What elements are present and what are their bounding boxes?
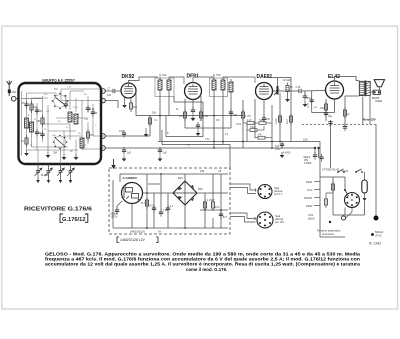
switch contact pair A [337,169,345,173]
svg-text:N. 2141: N. 2141 [369,242,381,246]
capacitor 1u with ground mid [158,147,168,162]
AVC resistor 4.47 horizontal [243,119,254,125]
svg-text:DF91: DF91 [306,180,313,184]
15A label on rail [303,138,308,142]
terminal 4 [101,146,106,151]
svg-text:100: 100 [119,129,124,133]
svg-text:100: 100 [107,94,112,97]
svg-text:100k: 100k [236,124,242,126]
tuner capacitor C1 [22,101,29,109]
svg-text:DK92: DK92 [306,204,313,208]
svg-text:2.2M: 2.2M [275,119,278,124]
IF transformer 2 [210,73,228,97]
svg-text:25µ: 25µ [328,115,333,118]
G.176/12 boxed label [60,214,88,223]
ground stub x146 [144,128,149,137]
wires to pilot lamps [230,184,256,222]
resistor 2.2M [199,109,208,121]
terminal 3 [101,134,106,139]
tuner capacitor C4 [86,105,95,113]
capacitor under IF2 with ground [196,122,201,136]
svg-text:0.08: 0.08 [296,86,301,89]
wire transformer bottom left [345,95,359,97]
1463/10126 boxed label [117,237,158,243]
tube DF91 [185,74,202,100]
main rail wires [105,78,370,171]
DAF91 plate wire and load [264,78,326,92]
DK92 cathode ground [122,97,127,108]
svg-text:B.7A: B.7A [141,202,147,205]
capacitor C.47 [307,97,318,109]
tuner ground 2 [46,152,51,158]
svg-text:4.5964: 4.5964 [304,162,312,165]
resistor 15k mid [148,111,156,128]
svg-text:C.47: C.47 [307,102,310,108]
wire IF2 to DAF91 [223,77,255,83]
volume potentiometer R.123 [274,78,291,95]
resistor right of EL42 [343,107,351,131]
midband value labels [154,109,242,147]
svg-text:6V: 6V [158,230,161,234]
svg-text:RICEVITORE G.176/6: RICEVITORE G.176/6 [24,207,92,213]
svg-text:1µF: 1µF [127,151,132,155]
electrolytic cap 500uF 15CV [111,207,120,219]
resistor 0.47 under EL42 [320,101,328,113]
input resistor B.7A [141,197,149,209]
svg-text:1711: 1711 [149,205,155,208]
svg-text:100: 100 [233,113,238,117]
svg-text:0.1: 0.1 [170,205,174,208]
svg-text:B30: B30 [198,187,203,191]
bottom caption paragraph [45,252,361,272]
svg-text:Rete 12V: Rete 12V [363,118,376,122]
svg-text:4.4050: 4.4050 [283,152,291,155]
svg-text:1µF: 1µF [163,151,168,155]
power junction dots [146,173,222,229]
capacitor 50u to ground [303,91,312,107]
wire DK92 plate to IF1 [129,77,159,83]
cap right power [211,199,220,211]
decoupling cap 4uF 150V [275,141,291,158]
choke resistor [203,199,215,211]
heater resistor 2 [308,193,333,221]
svg-text:G.176/12: G.176/12 [62,217,86,223]
svg-text:per 12V: per 12V [275,220,284,224]
tuner coil L4 [74,114,78,124]
svg-text:1461/10126: 1461/10126 [130,230,145,234]
svg-text:come il mod. G.176.: come il mod. G.176. [186,267,227,272]
tuner coil L2 [30,122,34,132]
svg-text:15k: 15k [152,111,157,115]
capacitor 500uF 25V label [303,156,312,165]
power box wiring [113,174,228,228]
coupling capacitor 0.08 [296,86,302,93]
tuner capacitor C5 [64,101,68,109]
terminal dot right [374,216,379,221]
switch contact [329,189,349,223]
svg-text:1463/10126 12V: 1463/10126 12V [120,238,146,242]
tube EL42 [326,74,344,99]
svg-text:150V: 150V [275,148,281,151]
svg-text:3-30: 3-30 [90,108,95,111]
svg-text:DAF91: DAF91 [257,74,273,80]
svg-text:di sintonia: di sintonia [322,232,334,236]
IF transformer 1 [155,73,174,97]
tuner ground 4 [74,154,79,160]
resistor 2.2M vertical right [275,113,282,125]
pilot lamp socket 6V [258,185,283,199]
tube heater labels [304,180,313,208]
resistor under DF91 [179,109,187,121]
capacitor 100 under terminal3 [119,129,126,138]
filter cap 1711 [149,205,157,213]
junction dots [159,115,320,150]
cap right power 2 [219,211,228,219]
svg-text:A.C: A.C [44,93,48,96]
antenna terminal [11,96,19,101]
svg-text:15A: 15A [303,138,308,142]
svg-text:R×2: R×2 [215,206,220,209]
tuner ground 3 [62,154,67,160]
rectifier socket [342,169,360,208]
tuning gang capacitor 3 [57,164,65,183]
svg-text:(7V) 6: (7V) 6 [375,235,382,238]
tuner resistor R3 [86,129,94,141]
svg-text:50k: 50k [133,105,138,109]
DK92 grid resistor 50k [129,98,137,113]
svg-text:OC: OC [54,88,58,91]
rotary switch S2 [53,135,68,155]
svg-text:0.1A: 0.1A [307,188,313,192]
svg-text:B×7: B×7 [223,216,228,219]
tuner resistor R2 [37,115,45,127]
tuner capacitor C6 [91,109,98,117]
filament supply bus [320,170,365,237]
Rete 12V label [363,118,376,122]
RICEVITORE label [24,207,92,213]
switch contact pair B [355,169,363,173]
tuner capacitor C9 [40,131,44,139]
loudspeaker [372,80,385,103]
tuner coil L3 [68,112,72,122]
Pulsante label [317,229,341,237]
VETRATO EL42 label [322,168,340,172]
svg-text:DAF91: DAF91 [304,196,313,200]
vibrator transformer A.1463/SV [122,176,143,204]
filter cap 7.5A [159,209,168,217]
battery input arrow [111,159,115,169]
terminal 1 [101,89,106,94]
capacitor mid3 [229,109,238,117]
grid capacitor C7 [105,88,121,98]
dashed separator lines power section [302,125,378,128]
svg-text:50µ: 50µ [307,97,312,100]
resistor 4.7M vertical [241,109,250,121]
output transformer [359,80,370,97]
tuner ground [24,150,29,156]
svg-text:76166: 76166 [375,100,383,103]
wire IF1 to DF91 [169,77,184,84]
cap under junction 315 [313,152,324,162]
svg-text:Pulsante automatico: Pulsante automatico [317,229,341,233]
svg-text:10M: 10M [250,126,255,129]
svg-text:1.5k: 1.5k [203,114,209,118]
terminal 2 [101,98,106,103]
socket output terminal [341,208,352,221]
bridge rectifier [173,176,203,205]
RF tuner box GRUPPO A.F. [19,79,102,165]
antenna [7,81,17,97]
heater resistor 1 [331,181,334,193]
tuning gang capacitor 2 [41,164,53,183]
svg-text:B30: B30 [178,176,183,180]
svg-text:OM: OM [53,152,57,155]
wire gang cap connector 1 [37,150,39,164]
svg-text:3-30: 3-30 [73,107,78,109]
svg-text:15C/V: 15C/V [111,216,118,219]
svg-text:VT7050 EL42: VT7050 EL42 [322,168,340,172]
buffer cap mid [166,205,174,213]
svg-text:1M: 1M [179,114,183,118]
AVC resistor 5.4M horizontal [254,119,272,125]
svg-text:100: 100 [266,118,271,121]
svg-text:8.47: 8.47 [286,119,289,124]
electrolytic capacitor cylinder [362,175,367,201]
svg-text:OC: OC [46,111,50,113]
svg-text:EL42: EL42 [342,169,349,173]
tuner capacitor C2 [35,107,43,115]
pilot lamp socket 12V [257,212,284,228]
tuner internal wiring [22,89,101,156]
tube DAF91 [256,74,273,100]
tuning gang capacitor 1 [35,164,43,183]
svg-text:50mA: 50mA [308,217,315,221]
AVC resistor 10M horizontal [247,126,264,132]
power supply dashed box [109,168,230,234]
svg-text:per 6 V: per 6 V [274,192,283,196]
wire DF91 plate to IF2 [193,77,214,83]
svg-text:1M: 1M [33,106,36,109]
wire transformer to speaker coil [370,91,373,93]
svg-text:GRUPPO A.F. 2555/7: GRUPPO A.F. 2555/7 [42,79,75,83]
resistor 8.47 vertical [286,113,293,125]
svg-text:+B: +B [218,170,221,173]
AVC resistor 47k horizontal [255,133,272,139]
svg-text:A.1463/SV: A.1463/SV [123,176,138,180]
svg-text:156: 156 [200,170,205,173]
svg-text:100: 100 [39,110,44,113]
svg-text:150: 150 [320,107,325,110]
svg-text:0.25: 0.25 [308,213,314,217]
rotary switch S1 [52,88,69,109]
capacitor 1u with ground left [122,147,132,162]
svg-text:4.7M: 4.7M [245,114,251,118]
wire gang cap connector 2 [60,149,62,165]
heater stub wires [314,182,320,206]
tuner coil L5 [80,138,84,148]
wire right vertical to power [375,125,377,219]
grid resistor vertical [285,83,293,103]
tuner resistor R8 [21,135,28,147]
svg-text:G.751: G.751 [213,73,221,77]
svg-text:DK92: DK92 [122,74,135,80]
5000uF label [371,231,384,238]
capacitor under DF91 [191,107,196,121]
tuning gang capacitor 4 [67,164,75,183]
svg-text:4.47: 4.47 [247,119,252,122]
cathode capacitor EL42 [324,110,333,118]
power labels bottom [130,230,161,234]
coupling cap at Rete crossing [328,122,332,124]
svg-text:EL42: EL42 [328,74,340,80]
detector coil [229,79,233,98]
capacitor under DAF91 [262,115,271,123]
vibrator pin wires [117,201,132,210]
tuner value labels [28,87,97,154]
N. 2141 [369,242,381,246]
tuner coil L1 [25,118,29,128]
power label 156 [200,170,221,173]
tuner capacitor C3 [35,129,42,137]
svg-text:R.123: R.123 [284,78,291,82]
tube DK92 [121,74,136,98]
tuner resistor R1 [30,101,37,113]
svg-text:A50: A50 [11,90,16,94]
svg-text:M.455: M.455 [41,174,49,177]
svg-text:2.25µF: 2.25µF [207,199,215,202]
svg-text:G.721: G.721 [159,73,167,77]
wire EL42 plate to transformer [335,77,360,82]
